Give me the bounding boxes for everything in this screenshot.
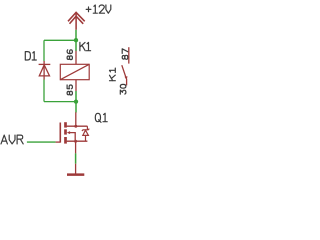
relay contact arm: [122, 65, 127, 79]
relay coil K1 pin 86 lead: [75, 51, 77, 64]
pin number 30: [120, 84, 126, 94]
drain lead: [67, 125, 88, 127]
gate bar: [59, 123, 61, 143]
channel stub body: [64, 129, 67, 134]
transistor Q1: [60, 122, 87, 143]
relay contact K1 pin 30 stub: [126, 79, 128, 86]
pin number 87: [122, 49, 128, 60]
body arrow head: [67, 131, 70, 134]
wire D1 bottom to node B: [44, 101, 76, 103]
body diode of Q1: [82, 126, 89, 141]
relay coil K1 pin 85 lead: [75, 80, 77, 91]
node A junction: [74, 38, 78, 42]
relay contact K1 pin 87 stub: [128, 47, 130, 63]
transistor Q1 drain pin: [75, 112, 77, 126]
wire node B to Q1 drain: [75, 102, 77, 113]
wire D1 top lead down: [43, 40, 45, 61]
label K1 coil: [80, 42, 91, 50]
ground: [67, 164, 84, 175]
body arrow line: [70, 133, 75, 142]
wire coil to node B: [75, 91, 77, 102]
wire node A to D1 top: [44, 39, 76, 41]
source lead: [67, 140, 88, 142]
label D1: [25, 52, 36, 60]
power +12V symbol: [68, 12, 85, 29]
pin number 86: [67, 50, 72, 60]
gate pin lead: [56, 141, 61, 143]
wire source to GND: [75, 153, 77, 163]
label K1 contact: [110, 68, 116, 81]
source junction dot: [74, 140, 77, 143]
wire AVR to gate: [27, 141, 56, 143]
relay contact arm arrowhead: [125, 76, 128, 80]
label +12V: [86, 5, 111, 13]
node B junction: [74, 99, 78, 103]
transistor Q1 source pin: [75, 141, 77, 153]
relay coil K1 body: [60, 64, 89, 79]
wire D1 bottom lead down: [43, 80, 45, 102]
wire node A to relay coil: [75, 40, 77, 51]
diode D1: [39, 61, 51, 80]
label AVR: [1, 135, 23, 144]
pin number 85: [67, 85, 72, 95]
channel stub source: [64, 137, 67, 144]
wire +12V to node A: [75, 30, 77, 40]
label Q1: [95, 113, 107, 122]
channel stub drain: [64, 122, 67, 127]
drain junction dot: [74, 125, 77, 128]
